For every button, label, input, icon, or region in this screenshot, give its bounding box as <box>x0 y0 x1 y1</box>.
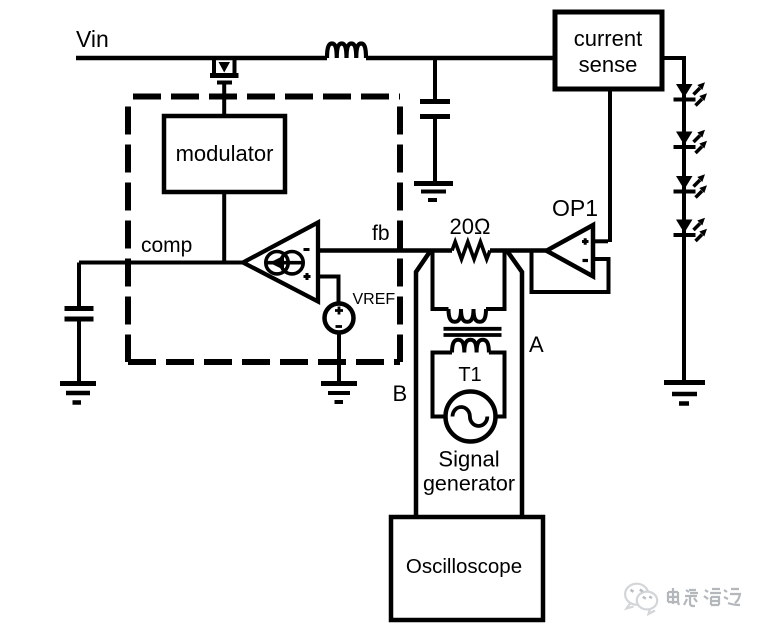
svg-text:modulator: modulator <box>176 141 274 166</box>
svg-text:T1: T1 <box>458 364 481 386</box>
svg-text:OP1: OP1 <box>552 195 598 221</box>
svg-text:Vin: Vin <box>76 26 109 52</box>
svg-text:A: A <box>529 332 544 357</box>
svg-text:comp: comp <box>141 234 192 257</box>
svg-text:sense: sense <box>579 52 638 77</box>
svg-text:20Ω: 20Ω <box>450 214 491 239</box>
svg-text:current: current <box>574 26 642 51</box>
svg-text:Oscilloscope: Oscilloscope <box>406 555 522 578</box>
svg-text:Signal: Signal <box>438 447 499 472</box>
svg-text:fb: fb <box>372 222 390 245</box>
svg-text:VREF: VREF <box>353 291 396 308</box>
svg-text:B: B <box>393 381 408 406</box>
svg-text:generator: generator <box>423 472 515 496</box>
